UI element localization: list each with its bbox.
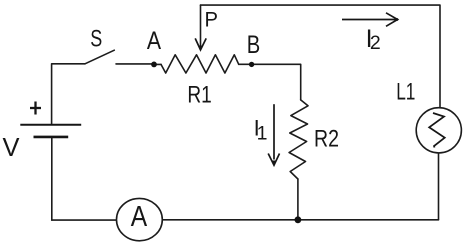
switch S blade xyxy=(85,50,114,64)
svg-text:R1: R1 xyxy=(187,82,211,109)
wire R1 to node B to corner down to R2 xyxy=(239,64,301,100)
svg-text:A: A xyxy=(147,27,161,55)
svg-text:R2: R2 xyxy=(314,125,339,152)
wire switch right contact to node A xyxy=(116,63,154,65)
ammeter A xyxy=(116,198,162,240)
svg-text:P: P xyxy=(205,9,219,32)
node B xyxy=(249,62,254,67)
resistor R1 xyxy=(161,55,239,73)
current arrow I1 xyxy=(268,104,279,165)
svg-text:V: V xyxy=(3,132,21,162)
battery V plates xyxy=(20,125,81,137)
current arrow I2 xyxy=(342,13,398,26)
node A xyxy=(151,62,157,68)
battery plus sign xyxy=(30,102,41,115)
svg-text:L1: L1 xyxy=(396,79,415,106)
svg-text:A: A xyxy=(131,201,148,233)
svg-text:S: S xyxy=(90,26,102,53)
svg-text:1: 1 xyxy=(257,123,268,145)
svg-text:2: 2 xyxy=(370,32,381,54)
wire bottom rail right segment xyxy=(162,219,438,221)
resistor R2 xyxy=(289,100,308,179)
wire top rail to right corner down to lamp xyxy=(201,5,441,108)
junction dot bottom xyxy=(295,216,302,223)
wire R2 bottom to junction xyxy=(297,179,299,220)
wire battery negative down to bottom rail xyxy=(51,137,53,220)
svg-text:B: B xyxy=(247,31,260,59)
lamp L1 xyxy=(416,108,461,153)
wire wiper stem P xyxy=(200,5,202,45)
wire bottom rail left segment xyxy=(52,219,117,221)
wire lamp bottom to bottom-right corner xyxy=(438,153,440,220)
wire node A to R1 xyxy=(154,63,161,65)
wiper arrowhead xyxy=(195,38,206,50)
wire top-left corner: switch left lead xyxy=(52,64,85,124)
